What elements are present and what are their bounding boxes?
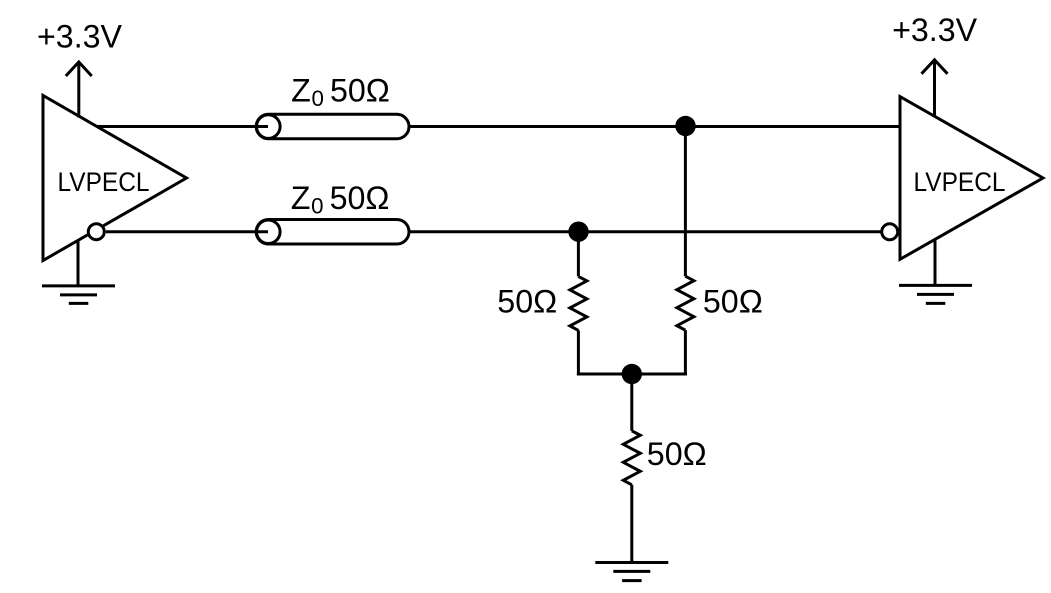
- wire: R2 to center node: [684, 330, 687, 375]
- wire: bottom rail node down to R1: [577, 232, 580, 277]
- wire: R3 to ground: [630, 485, 633, 563]
- svg-text:+3.3V: +3.3V: [37, 18, 123, 54]
- junction dot (top rail node): [675, 116, 695, 136]
- inversion bubble (left driver inverted output): [88, 224, 104, 240]
- wire: top rail node down to R2: [684, 126, 687, 276]
- power arrow (right receiver supply): [922, 60, 948, 118]
- svg-text:50Ω: 50Ω: [330, 73, 390, 109]
- junction dot (bottom rail node): [568, 222, 588, 242]
- inversion bubble (right receiver inverted input): [882, 224, 898, 240]
- resistor R3 50 ohm (to ground): [623, 431, 640, 485]
- junction dot (center termination node): [622, 364, 642, 384]
- wire: T2 to right receiver inverted input (bottom rail): [409, 230, 882, 233]
- wire: T1 to right receiver input (top rail): [409, 125, 901, 128]
- label Z0 50 ohm (top): [291, 73, 390, 111]
- svg-text:LVPECL: LVPECL: [914, 167, 1006, 197]
- wire: center node down to R3: [630, 374, 633, 431]
- resistor R1 50 ohm (left termination): [570, 276, 587, 330]
- wire: left driver output to T1: [97, 125, 268, 128]
- svg-text:50Ω: 50Ω: [330, 180, 390, 216]
- transmission line T2 (bottom, Z0 50ohm): [256, 220, 409, 245]
- ground (termination network): [595, 563, 668, 581]
- ground (right receiver): [899, 239, 972, 304]
- svg-text:Z: Z: [291, 73, 311, 109]
- svg-text:0: 0: [312, 86, 324, 111]
- driver triangle U1 (left LVPECL): [43, 96, 187, 261]
- power arrow (left driver supply): [66, 62, 92, 118]
- wire: left driver inverted output to T2: [106, 230, 268, 233]
- svg-text:50Ω: 50Ω: [647, 436, 707, 472]
- svg-text:LVPECL: LVPECL: [58, 167, 150, 197]
- wire: center node horizontal bar: [577, 373, 687, 376]
- ground (left driver): [42, 240, 115, 304]
- svg-text:50Ω: 50Ω: [703, 284, 763, 320]
- svg-text:Z: Z: [291, 180, 311, 216]
- resistor R2 50 ohm (right termination): [677, 276, 694, 330]
- transmission line T1 (top, Z0 50ohm): [256, 114, 409, 139]
- svg-text:50Ω: 50Ω: [497, 284, 557, 320]
- svg-text:+3.3V: +3.3V: [892, 12, 978, 48]
- wire: R1 to center node: [577, 330, 580, 375]
- receiver triangle U2 (right LVPECL): [900, 97, 1043, 260]
- label Z0 50 ohm (bottom): [291, 180, 390, 218]
- svg-text:0: 0: [311, 193, 323, 218]
